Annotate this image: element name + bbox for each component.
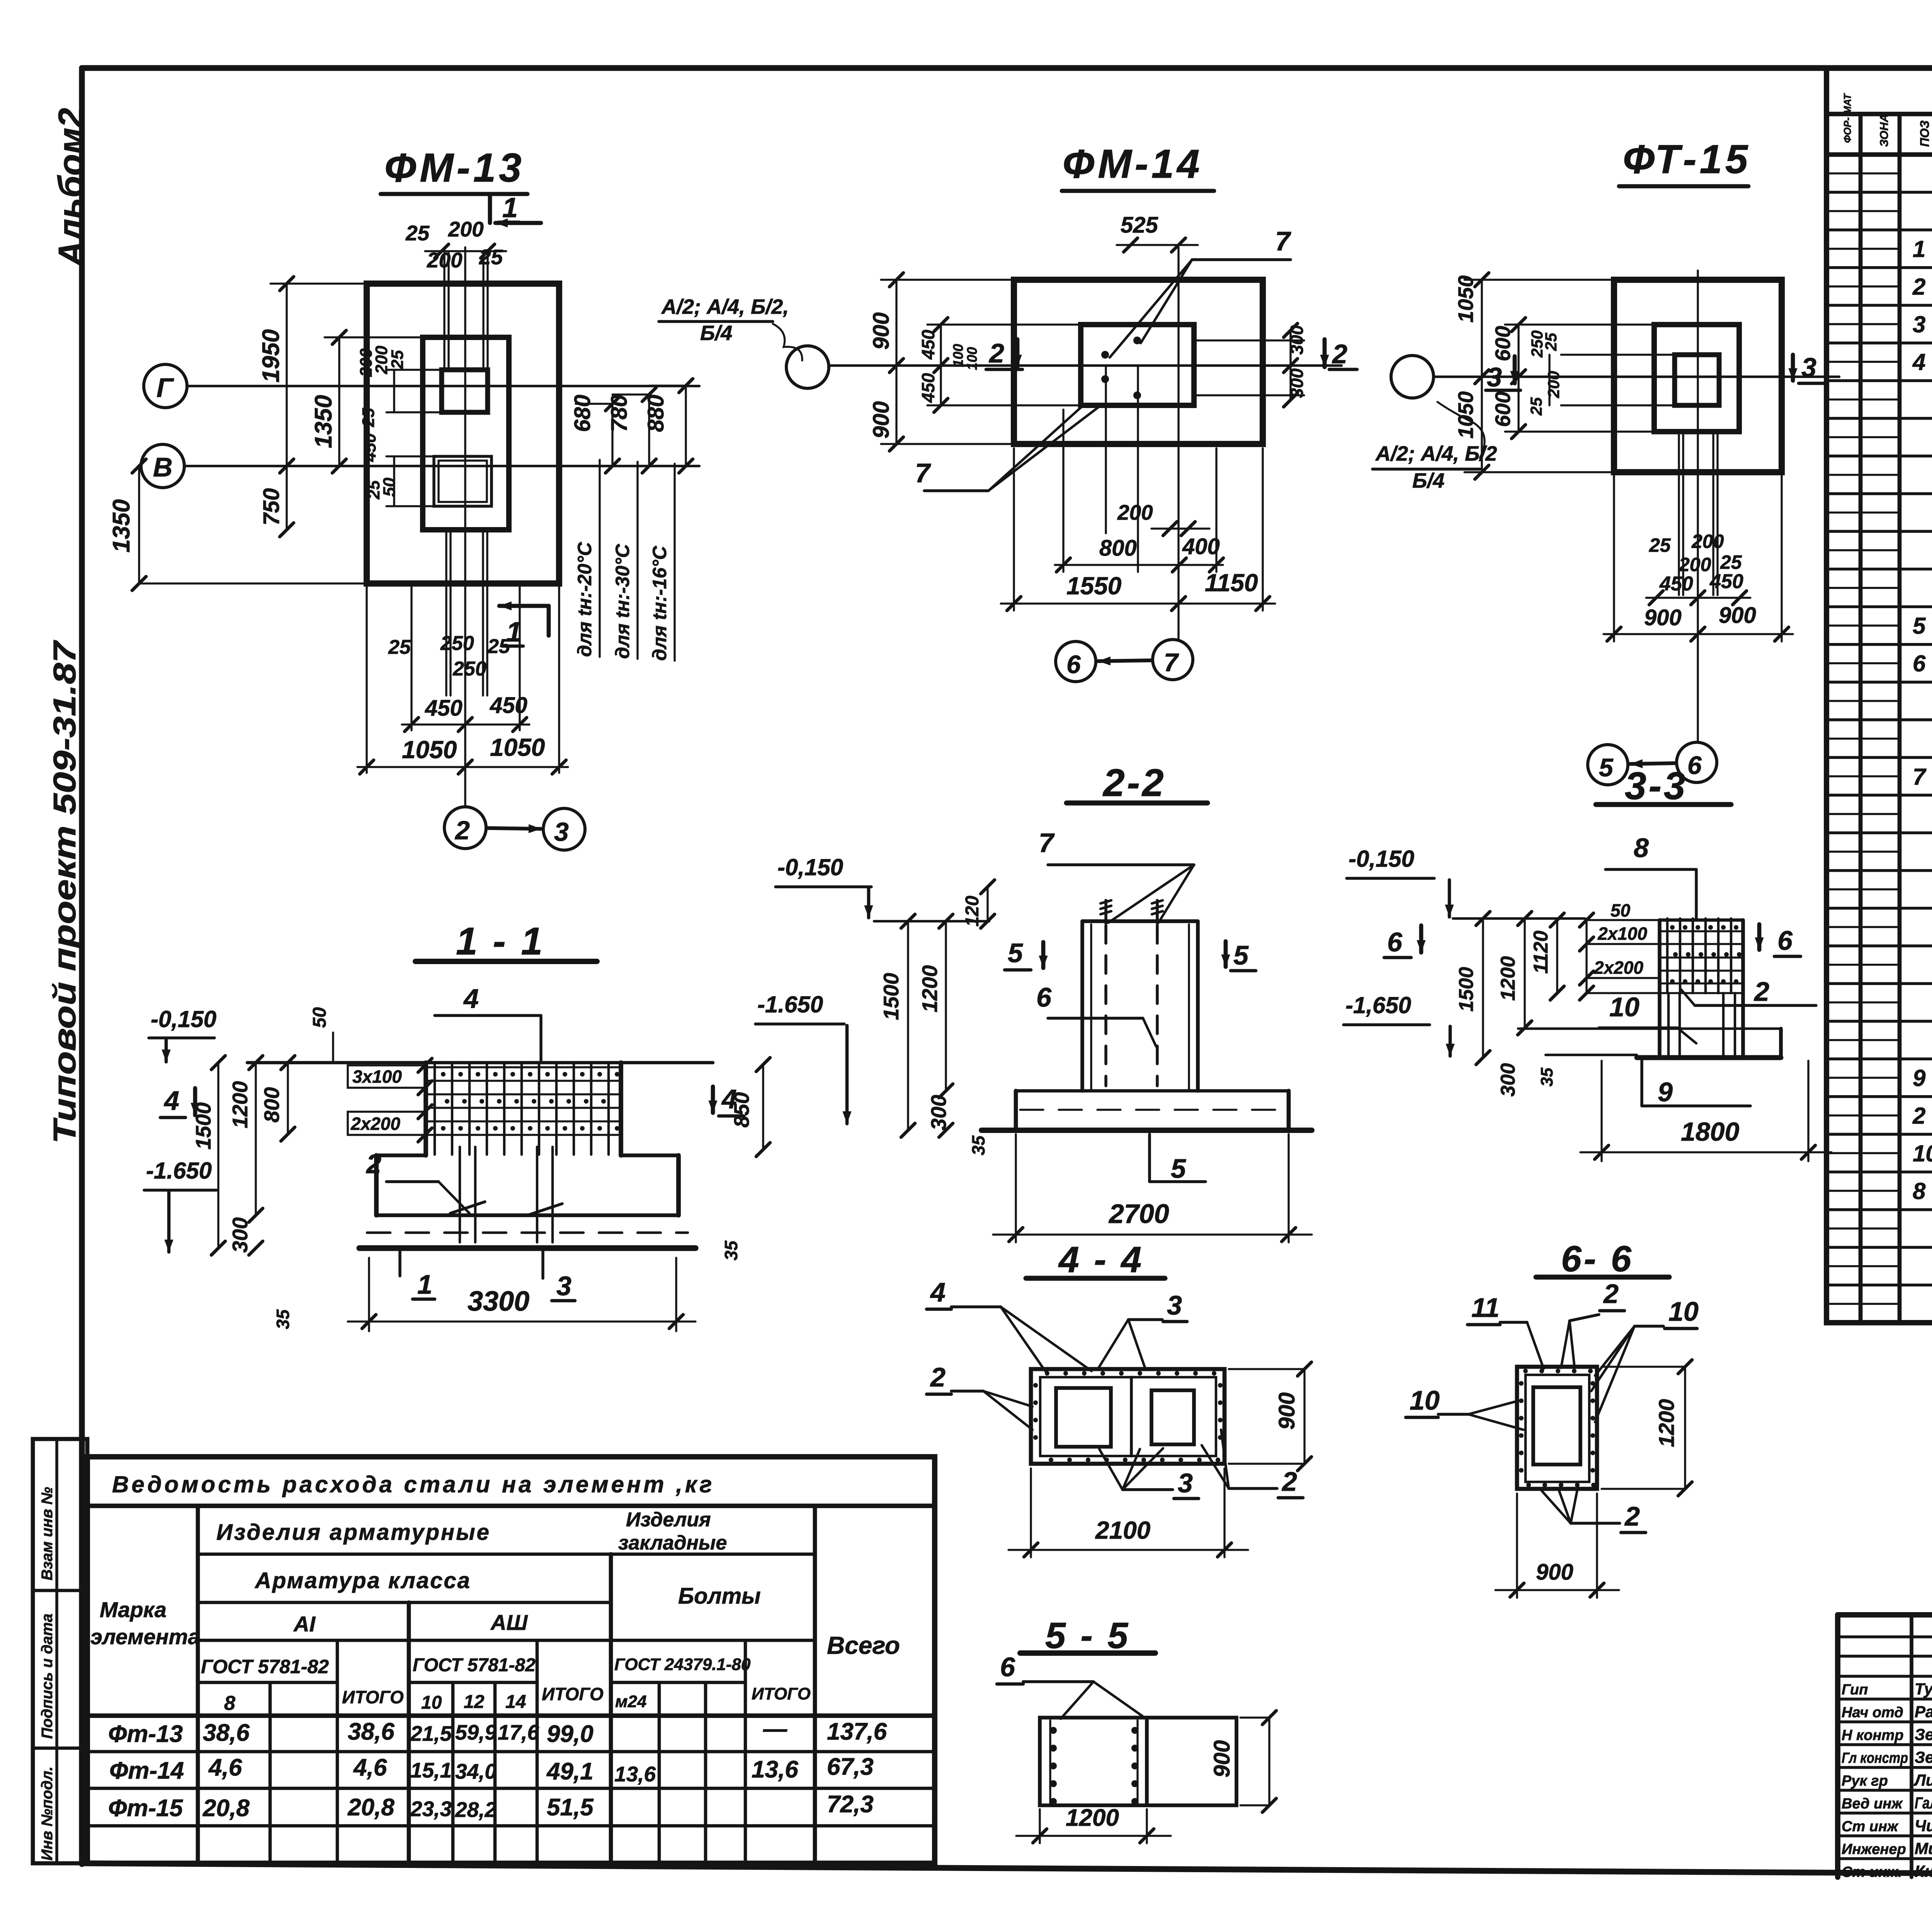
svg-text:1150: 1150 [1205, 569, 1258, 597]
svg-text:10: 10 [1609, 992, 1639, 1022]
svg-text:Нач отд: Нач отд [1842, 1704, 1903, 1721]
svg-text:Гип: Гип [1842, 1682, 1868, 1698]
section 2-2 floor line [874, 920, 989, 922]
svg-text:3х100: 3х100 [352, 1067, 402, 1087]
left margin strip [33, 1439, 87, 1863]
svg-text:5: 5 [1008, 938, 1023, 968]
svg-text:Ст инж.: Ст инж. [1842, 1864, 1902, 1880]
svg-text:Н контр: Н контр [1842, 1727, 1903, 1744]
section 1-1 mesh step boxes [348, 1065, 426, 1088]
svg-text:Арматура класса: Арматура класса [254, 1568, 471, 1593]
svg-text:2: 2 [1332, 339, 1347, 369]
svg-text:1500: 1500 [879, 973, 903, 1020]
svg-text:Б/4: Б/4 [1412, 469, 1444, 492]
svg-text:300: 300 [1287, 368, 1307, 398]
svg-text:В: В [153, 452, 173, 482]
svg-text:2700: 2700 [1108, 1199, 1169, 1229]
svg-text:38,6: 38,6 [348, 1718, 395, 1745]
svg-text:1350: 1350 [108, 499, 135, 553]
svg-text:2: 2 [988, 338, 1004, 368]
svg-text:6: 6 [1687, 751, 1702, 779]
section 6-6 outer rect [1517, 1367, 1597, 1489]
svg-text:-1.650: -1.650 [146, 1158, 212, 1184]
arrow 6 to 5 [1630, 763, 1675, 764]
svg-text:400: 400 [1182, 534, 1220, 559]
svg-text:ИТОГО: ИТОГО [342, 1687, 404, 1707]
svg-text:для tн:-20°C: для tн:-20°C [574, 542, 595, 657]
svg-text:АI: АI [293, 1612, 316, 1636]
svg-text:14: 14 [505, 1692, 526, 1712]
svg-text:3: 3 [1801, 352, 1816, 383]
svg-text:300: 300 [927, 1095, 951, 1130]
svg-text:1200: 1200 [1066, 1805, 1119, 1831]
svg-text:4: 4 [163, 1085, 179, 1116]
svg-text:3: 3 [1167, 1290, 1182, 1320]
section 5-5 dim 900 [1268, 1718, 1270, 1805]
svg-text:Марка: Марка [100, 1597, 167, 1622]
svg-text:35: 35 [273, 1309, 293, 1329]
svg-text:1200: 1200 [1654, 1399, 1679, 1447]
svg-text:25: 25 [405, 221, 430, 245]
svg-text:50: 50 [380, 478, 399, 497]
svg-text:300: 300 [1497, 1063, 1519, 1097]
svg-text:250: 250 [440, 632, 474, 655]
section 3-3 left dims [1482, 919, 1484, 1058]
svg-text:Инженер: Инженер [1842, 1841, 1906, 1857]
svg-text:2: 2 [1281, 1466, 1297, 1497]
plan FM-14 bottom dim 800 400 [1055, 564, 1223, 566]
svg-text:м24: м24 [615, 1692, 647, 1711]
svg-text:51,5: 51,5 [547, 1794, 594, 1821]
svg-text:13,6: 13,6 [752, 1756, 798, 1783]
svg-text:Княжицкая: Княжицкая [1915, 1862, 1932, 1880]
svg-text:200: 200 [1679, 554, 1711, 575]
svg-text:5 - 5: 5 - 5 [1045, 1615, 1130, 1656]
svg-text:3: 3 [554, 817, 569, 847]
svg-text:21,5: 21,5 [410, 1721, 452, 1745]
plan FM-13 left dim 1950 [286, 284, 287, 466]
svg-text:1050: 1050 [1454, 391, 1478, 439]
svg-text:900: 900 [1274, 1392, 1299, 1430]
svg-text:200: 200 [1117, 500, 1153, 524]
svg-text:1800: 1800 [1681, 1117, 1739, 1146]
svg-text:2: 2 [454, 816, 470, 845]
plan FM-14 stakan [1081, 325, 1194, 405]
svg-text:900: 900 [869, 312, 894, 350]
section 1-1 rebar cut marks [450, 1202, 485, 1213]
svg-text:3: 3 [556, 1271, 571, 1301]
plan FM-13 anchor plate [442, 370, 488, 412]
svg-text:-0,150: -0,150 [151, 1006, 216, 1032]
svg-text:25: 25 [388, 636, 411, 658]
svg-text:1120: 1120 [1530, 930, 1552, 974]
svg-text:Болты: Болты [678, 1584, 761, 1609]
svg-text:25: 25 [1720, 551, 1742, 573]
plan FT-15 anchor plate [1675, 355, 1719, 405]
svg-text:120: 120 [962, 896, 983, 927]
svg-text:600: 600 [1491, 391, 1515, 427]
axis circle 6b [1677, 742, 1717, 782]
svg-text:25: 25 [359, 408, 378, 427]
plan FT-15 dim 900 900 [1604, 633, 1793, 635]
axis circle 6 [1056, 641, 1096, 682]
svg-text:525: 525 [1121, 213, 1158, 238]
svg-text:ГОСТ 5781-82: ГОСТ 5781-82 [201, 1656, 329, 1677]
svg-text:ЗОНА: ЗОНА [1878, 114, 1891, 147]
section 1-1 label 1 [398, 1251, 401, 1276]
svg-text:4: 4 [463, 983, 479, 1014]
svg-text:4: 4 [1912, 349, 1925, 375]
section 6-6 opening [1533, 1387, 1580, 1465]
plan FM-13 left dim 750 [286, 466, 287, 530]
svg-text:2: 2 [1624, 1501, 1640, 1531]
specification table grid [1827, 68, 1932, 1323]
svg-text:780: 780 [607, 395, 632, 432]
svg-text:680: 680 [570, 395, 595, 432]
svg-text:10: 10 [421, 1692, 442, 1713]
steel consumption table [87, 1457, 935, 1863]
section 1-1 ground top line [247, 1061, 713, 1065]
svg-text:300: 300 [1287, 325, 1307, 355]
svg-text:1: 1 [502, 192, 518, 223]
svg-text:Взам инв №: Взам инв № [39, 1487, 56, 1580]
svg-text:6: 6 [1913, 651, 1926, 677]
svg-text:6- 6: 6- 6 [1561, 1238, 1634, 1279]
plan FM-13 lower bolt lines [445, 530, 447, 696]
svg-text:8: 8 [1913, 1178, 1926, 1204]
svg-text:3: 3 [1487, 362, 1502, 392]
svg-text:4,6: 4,6 [208, 1754, 242, 1781]
svg-text:35: 35 [968, 1135, 988, 1155]
section 6-6 dim 1200 [1684, 1367, 1686, 1489]
svg-text:ИТОГО: ИТОГО [542, 1684, 604, 1704]
svg-text:7: 7 [1913, 764, 1927, 789]
svg-text:450: 450 [361, 433, 379, 462]
svg-text:2х200: 2х200 [350, 1114, 400, 1134]
svg-text:9: 9 [1913, 1065, 1926, 1091]
svg-text:900: 900 [1209, 1740, 1235, 1778]
section 1-1 right section mark 4 [711, 1087, 715, 1113]
plan FM-13 outer square [367, 284, 559, 583]
svg-text:450: 450 [1659, 573, 1693, 595]
svg-text:25: 25 [487, 635, 510, 658]
svg-text:100: 100 [964, 347, 980, 370]
plan FT-15 left dim 1050 1050 [1481, 280, 1483, 472]
svg-text:12: 12 [464, 1692, 485, 1712]
section 4-4 dim 2100 [1030, 1468, 1032, 1557]
svg-text:1950: 1950 [258, 329, 284, 383]
section 4-4 mullion [1130, 1377, 1133, 1456]
svg-text:10: 10 [1668, 1296, 1699, 1327]
svg-text:1050: 1050 [402, 736, 457, 764]
section 5-5 dim 1200 [1039, 1809, 1041, 1843]
svg-text:2: 2 [366, 1149, 381, 1179]
plan FM-14 axis line [830, 364, 1342, 367]
svg-text:1 - 1: 1 - 1 [456, 920, 545, 963]
svg-text:для tн:-30°C: для tн:-30°C [612, 544, 633, 659]
section 5-5 weld dots [1050, 1727, 1057, 1734]
section 1-1 column sides [423, 1063, 428, 1155]
svg-text:38,6: 38,6 [203, 1720, 250, 1746]
svg-text:49,1: 49,1 [546, 1758, 594, 1785]
svg-text:А/2; А/4, Б/2: А/2; А/4, Б/2 [1375, 442, 1497, 465]
svg-text:900: 900 [1644, 605, 1682, 630]
svg-text:6: 6 [1066, 650, 1081, 679]
svg-text:—: — [763, 1716, 787, 1742]
svg-text:20,8: 20,8 [202, 1795, 250, 1822]
section 1-1 slab step [376, 1153, 426, 1157]
svg-text:Радько: Радько [1915, 1703, 1932, 1721]
svg-text:11: 11 [1471, 1293, 1500, 1323]
svg-text:ФОР- МАТ: ФОР- МАТ [1842, 93, 1853, 143]
svg-text:7: 7 [1039, 828, 1055, 858]
svg-text:50: 50 [310, 1007, 330, 1028]
svg-text:450: 450 [918, 330, 938, 360]
svg-text:2х200: 2х200 [1594, 958, 1643, 978]
section 2-2 label 5 bottom [1148, 1134, 1151, 1182]
svg-text:Подпись и дата: Подпись и дата [39, 1614, 56, 1739]
svg-text:2-2: 2-2 [1102, 761, 1166, 805]
svg-text:1: 1 [1913, 236, 1925, 262]
plan FM-13 bolt lines top [443, 253, 445, 370]
plan FM-14 right dim 300 300 [1289, 330, 1291, 400]
svg-text:59,9: 59,9 [455, 1720, 497, 1744]
section 3-3 slab [1518, 1027, 1781, 1030]
svg-text:450: 450 [490, 693, 527, 718]
section 5-5 body [1040, 1718, 1236, 1805]
svg-text:900: 900 [1536, 1560, 1573, 1585]
svg-text:1500: 1500 [191, 1102, 215, 1150]
arrow 7 to 6 [1098, 660, 1151, 661]
section 2-2 left dims [907, 921, 909, 1130]
svg-text:Фт-15: Фт-15 [108, 1795, 184, 1822]
section 1-1 bottom thick line [359, 1245, 696, 1251]
svg-text:25: 25 [1527, 397, 1545, 416]
axis circle V [141, 444, 184, 488]
svg-text:2: 2 [1753, 976, 1769, 1007]
svg-text:25: 25 [388, 350, 407, 369]
svg-text:8: 8 [1634, 833, 1649, 863]
svg-text:Фт-13: Фт-13 [108, 1721, 183, 1747]
svg-text:450: 450 [425, 696, 463, 721]
svg-text:ПОЗ: ПОЗ [1918, 121, 1932, 147]
svg-text:67,3: 67,3 [827, 1754, 874, 1780]
svg-text:1200: 1200 [228, 1081, 252, 1128]
section 3-3 floor line [1453, 917, 1585, 920]
plan FT-15 dim 450 450 [1646, 597, 1750, 599]
svg-text:Рук гр: Рук гр [1842, 1773, 1888, 1789]
axis circle 2 [444, 807, 486, 849]
svg-text:4,6: 4,6 [353, 1754, 387, 1781]
svg-text:Чирва: Чирва [1915, 1817, 1932, 1835]
svg-text:Ст инж: Ст инж [1842, 1818, 1899, 1835]
svg-text:7: 7 [1164, 648, 1179, 677]
section 1-1 left dims [287, 1063, 289, 1134]
plan FM-14 left dim 900 900 [895, 280, 897, 444]
svg-text:750: 750 [259, 488, 284, 526]
svg-text:200: 200 [1544, 371, 1563, 398]
svg-text:900: 900 [869, 401, 894, 439]
svg-text:Ведомость расхода стал: Ведомость расхода стали на элемент ,кг [112, 1471, 714, 1497]
axis G line [187, 385, 699, 387]
axis circle 7 [1153, 640, 1193, 680]
plan FM-13 small left dims [386, 369, 442, 371]
section 2-2 slab [1016, 1089, 1289, 1093]
svg-text:8: 8 [224, 1692, 235, 1715]
svg-text:ФМ-13: ФМ-13 [384, 145, 525, 191]
plan FM-13 left dim 1350 [338, 337, 340, 466]
svg-text:1050: 1050 [490, 733, 545, 761]
svg-text:Б/4: Б/4 [700, 321, 732, 345]
plan FM-14 bottom dim 1550 1150 [1001, 602, 1275, 604]
svg-text:25: 25 [1649, 534, 1671, 556]
svg-text:20,8: 20,8 [347, 1794, 395, 1821]
plan FM-13 lower opening [434, 456, 492, 506]
svg-text:850: 850 [730, 1092, 753, 1128]
svg-text:для tн:-16°C: для tн:-16°C [649, 546, 670, 661]
svg-text:Изделия арматурные: Изделия арматурные [216, 1520, 491, 1545]
section 1-1 bedding dashed [367, 1232, 688, 1234]
svg-text:35: 35 [721, 1240, 741, 1260]
svg-text:3-3: 3-3 [1625, 764, 1688, 808]
section 2-2 dim 2700 [1015, 1134, 1017, 1242]
section 3-3 column mesh [1658, 920, 1662, 1058]
plan FM-14 axis circle [786, 346, 829, 388]
section 6-6 dim 900 [1516, 1493, 1518, 1598]
svg-text:Мирошниче: Мирошниче [1915, 1839, 1932, 1857]
svg-text:7: 7 [1275, 226, 1291, 256]
section 3-3 dim 1800 [1600, 1061, 1602, 1161]
svg-text:6: 6 [1036, 982, 1052, 1012]
sheet border frame [82, 65, 1932, 71]
svg-text:Альбом2: Альбом2 [51, 108, 91, 267]
section 3-3 label 9 [1640, 1061, 1643, 1106]
section 2-2 column outline [1080, 921, 1084, 1091]
plan FM-13 right temp dims 680 780 880 [611, 404, 613, 466]
plan FT-15 lower bolt lines [1678, 432, 1680, 595]
plan FM-13 stakan [423, 337, 509, 530]
plan FM-14 centerline vertical [1177, 247, 1179, 640]
plan FT-15 centerline [1697, 270, 1699, 741]
svg-text:15,1: 15,1 [410, 1758, 452, 1782]
section 3-3 mesh boxes [1585, 920, 1587, 993]
svg-text:5: 5 [1599, 753, 1614, 782]
section 4-4 dim 900 [1303, 1369, 1305, 1464]
svg-text:2: 2 [1912, 1103, 1925, 1129]
svg-text:99,0: 99,0 [547, 1721, 594, 1747]
section 2-2 anchor bolts dashed [1104, 925, 1107, 1086]
svg-text:закладные: закладные [618, 1532, 727, 1554]
svg-text:Фт-14: Фт-14 [109, 1757, 184, 1784]
axis circle 3 [543, 808, 585, 850]
section 1-1 mesh [426, 1066, 621, 1068]
svg-text:элемента: элемента [90, 1624, 200, 1649]
section 3-3 dim 1120 [1556, 920, 1558, 993]
svg-text:137,6: 137,6 [827, 1718, 887, 1745]
svg-text:Зеленский: Зеленский [1915, 1725, 1932, 1744]
svg-text:1500: 1500 [1455, 967, 1478, 1012]
arrow 2 to 3 [488, 828, 541, 829]
svg-text:Изделия: Изделия [626, 1509, 711, 1531]
svg-text:7: 7 [915, 458, 931, 488]
svg-text:100: 100 [950, 344, 966, 367]
svg-text:10: 10 [1410, 1385, 1440, 1415]
svg-text:Галактионове: Галактионове [1915, 1794, 1932, 1812]
svg-text:1: 1 [417, 1269, 432, 1300]
section 1-1 vertical rebars [459, 1147, 461, 1242]
svg-text:17,6: 17,6 [498, 1720, 539, 1744]
svg-text:1350: 1350 [310, 395, 337, 448]
svg-text:3: 3 [1178, 1468, 1193, 1498]
svg-text:2: 2 [1912, 274, 1925, 300]
svg-text:25: 25 [1542, 333, 1560, 351]
svg-text:Всего: Всего [827, 1631, 900, 1659]
svg-text:35: 35 [1537, 1068, 1556, 1087]
svg-text:АШ: АШ [490, 1610, 528, 1635]
section 1-1 slab bottom [376, 1213, 679, 1217]
svg-text:2100: 2100 [1095, 1516, 1150, 1544]
svg-text:ФТ-15: ФТ-15 [1623, 137, 1751, 182]
svg-text:250: 250 [452, 658, 486, 680]
svg-text:13,6: 13,6 [614, 1762, 656, 1786]
svg-text:1200: 1200 [918, 965, 942, 1012]
svg-text:600: 600 [1491, 326, 1515, 361]
svg-text:Г: Г [156, 373, 174, 403]
svg-text:300: 300 [228, 1217, 252, 1253]
svg-text:ГОСТ 24379.1-80: ГОСТ 24379.1-80 [614, 1655, 751, 1674]
plan FM-14 left dim 450 450 [940, 325, 942, 405]
svg-text:450: 450 [1709, 570, 1743, 593]
section 1-1 dim 3300 [368, 1258, 370, 1331]
svg-text:-1.650: -1.650 [757, 992, 823, 1017]
svg-text:Гл констр: Гл констр [1842, 1750, 1908, 1766]
svg-text:-0,150: -0,150 [1349, 846, 1414, 872]
svg-text:4 - 4: 4 - 4 [1058, 1239, 1144, 1280]
svg-text:28,2: 28,2 [455, 1798, 497, 1822]
svg-text:Вед инж: Вед инж [1842, 1796, 1903, 1812]
svg-text:3: 3 [1913, 311, 1925, 337]
section 4-4 openings [1056, 1388, 1111, 1447]
svg-text:-1,650: -1,650 [1345, 992, 1411, 1018]
svg-text:ИТОГО: ИТОГО [752, 1684, 811, 1703]
svg-text:-0,150: -0,150 [777, 854, 843, 880]
svg-text:2: 2 [1603, 1279, 1619, 1309]
svg-text:72,3: 72,3 [827, 1791, 874, 1818]
title block outline [1838, 1612, 1932, 1618]
svg-text:Типовой проект 509-31.87: Типовой проект 509-31.87 [47, 640, 82, 1144]
svg-text:23,3: 23,3 [410, 1797, 452, 1821]
plan FM-14 outer rect [1014, 280, 1263, 444]
svg-text:4: 4 [930, 1277, 946, 1307]
section 1-1 label 3 [541, 1251, 544, 1278]
svg-text:900: 900 [1719, 603, 1756, 628]
axis circle 5 [1588, 745, 1628, 785]
svg-text:800: 800 [260, 1087, 284, 1123]
svg-text:6: 6 [1000, 1652, 1015, 1682]
svg-text:Инв №подл.: Инв №подл. [39, 1766, 56, 1861]
svg-text:880: 880 [643, 395, 668, 432]
plan FM-13 dim 1050 1050 [357, 766, 568, 768]
svg-text:Лисунов: Лисунов [1913, 1771, 1932, 1789]
svg-text:50: 50 [1611, 900, 1631, 920]
plan FM-13 outer left dim 1350 [138, 466, 140, 583]
svg-text:200: 200 [1691, 531, 1724, 552]
svg-text:6: 6 [1387, 927, 1403, 957]
svg-text:5: 5 [1171, 1153, 1186, 1184]
section 4-4 outer rect [1031, 1369, 1225, 1464]
plan FM-13 bottom extension lines [366, 583, 367, 773]
plan FM-14 anchor bolts [1101, 351, 1109, 359]
